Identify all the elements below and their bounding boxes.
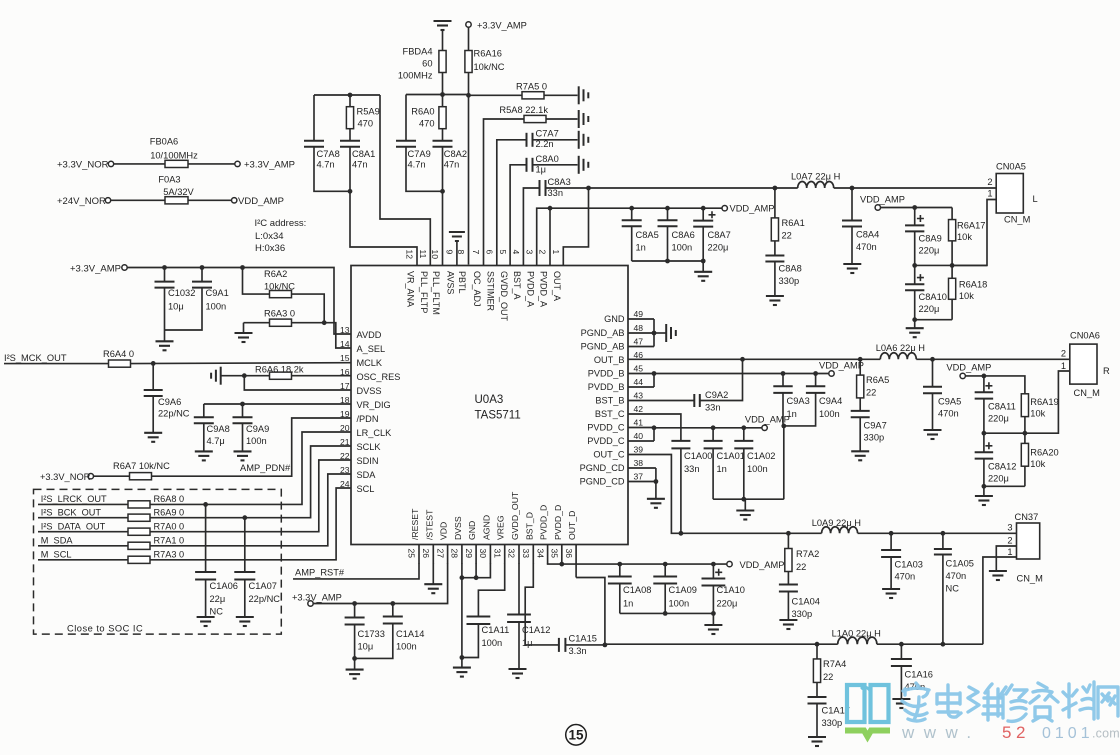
watermark logo [845, 682, 1118, 737]
wire mid node L [912, 263, 987, 268]
svg-text:26: 26 [421, 549, 431, 559]
wire cap commons [632, 259, 706, 272]
resistor R6A18 [949, 265, 988, 319]
svg-text:C1A03: C1A03 [895, 560, 923, 570]
svg-text:10k: 10k [959, 291, 974, 301]
wire to pin12 VR_ANA [350, 191, 417, 265]
svg-text:42: 42 [634, 404, 644, 414]
svg-text:A_SEL: A_SEL [357, 344, 386, 354]
svg-text:PVDD_B: PVDD_B [588, 382, 625, 392]
capacitor C1A00 [628, 414, 712, 536]
capacitor C1A07 [234, 518, 280, 617]
svg-text:I²S_LRCK_OUT: I²S_LRCK_OUT [41, 494, 107, 504]
ground [989, 571, 1007, 580]
svg-text:R6A17: R6A17 [957, 221, 985, 231]
svg-text:PLL_FLTP: PLL_FLTP [419, 271, 429, 313]
svg-text:470n: 470n [895, 572, 916, 582]
svg-text:C8A0: C8A0 [536, 154, 559, 164]
svg-text:100n: 100n [747, 464, 768, 474]
svg-text:C8A4: C8A4 [856, 230, 879, 240]
svg-text:10μ: 10μ [358, 642, 374, 652]
node +24V_NOR [57, 196, 111, 207]
svg-text:C9A5: C9A5 [938, 397, 961, 407]
svg-text:28: 28 [450, 549, 460, 559]
svg-text:220μ: 220μ [708, 243, 729, 253]
U0A3 top pin numbers 12-1 [405, 250, 561, 260]
resistor R6A1 [771, 188, 804, 241]
svg-text:220μ: 220μ [919, 304, 940, 314]
svg-text:C9A2: C9A2 [705, 390, 728, 400]
svg-text:100n: 100n [396, 642, 417, 652]
svg-text:I²S_MCK_OUT: I²S_MCK_OUT [4, 353, 67, 363]
svg-text:R6A20: R6A20 [1030, 448, 1058, 458]
capacitor C8A8 [765, 241, 801, 296]
resistor R6A20 [1021, 433, 1058, 486]
capacitor C1A17 [808, 683, 850, 737]
svg-text:C8A9: C8A9 [919, 233, 942, 243]
svg-text:1μ: 1μ [536, 165, 547, 175]
capacitor C1A09 [653, 564, 697, 613]
svg-text:VDD_AMP: VDD_AMP [946, 363, 991, 373]
ground [666, 324, 676, 342]
svg-text:+3.3V_NOR: +3.3V_NOR [57, 159, 109, 170]
wire bottom node L [912, 317, 952, 327]
capacitor C1A10 [702, 564, 745, 613]
svg-text:PBTL: PBTL [457, 271, 467, 294]
wire VDD to C8A9 R6A17 [881, 205, 953, 220]
svg-text:PGND_CD: PGND_CD [580, 477, 625, 487]
svg-text:F0A3: F0A3 [158, 175, 180, 185]
capacitor C8A0 [510, 154, 577, 266]
svg-text:25: 25 [407, 549, 417, 559]
label I²S_LRCK_OUT [41, 494, 107, 504]
svg-text:29: 29 [464, 549, 474, 559]
svg-text:R6A7 10k/NC: R6A7 10k/NC [113, 461, 170, 471]
U0A3 bottom pin numbers 25-36 [407, 549, 574, 559]
capacitor C1A03 [881, 533, 923, 588]
svg-text:10k/NC: 10k/NC [264, 282, 295, 292]
label M_SDA [41, 536, 74, 546]
wire DVSS pin17 [244, 376, 351, 390]
capacitor C8A12 [975, 433, 1017, 486]
U0A3 top pin labels [406, 271, 562, 322]
svg-text:41: 41 [634, 418, 644, 428]
svg-text:R7A4: R7A4 [823, 659, 846, 669]
ground [851, 451, 869, 460]
svg-text:0101: 0101 [1042, 725, 1094, 742]
wire rail1 PLL_FLTP [314, 93, 380, 98]
wire PVDD_B rail [628, 371, 829, 387]
svg-text:.com: .com [1092, 727, 1120, 741]
ground [579, 86, 589, 104]
U0A3 bottom pin stubs [419, 545, 576, 564]
ground [906, 328, 924, 337]
label I2S_MCK_OUT [4, 353, 67, 363]
svg-text:MCLK: MCLK [357, 358, 383, 368]
svg-text:C1A12: C1A12 [522, 625, 550, 635]
svg-text:PVDD_D: PVDD_D [553, 505, 563, 540]
svg-text:PGND_CD: PGND_CD [580, 463, 625, 473]
svg-text:22p/NC: 22p/NC [158, 409, 190, 419]
svg-text:22p/NC: 22p/NC [249, 594, 281, 604]
resistor R6A19 [1021, 394, 1058, 433]
wire OUT_A from pin1 [563, 186, 591, 266]
capacitor C8A6 [658, 208, 695, 261]
svg-text:AMP_PDN#: AMP_PDN# [240, 463, 291, 473]
wire AMP_RST# to pin25 [293, 563, 419, 579]
node +3.3V_AMP [466, 21, 527, 31]
wire PVDD_D rail [548, 562, 727, 567]
svg-text:100MHz: 100MHz [398, 71, 433, 81]
wire GND PGND_AB pins 49-47 [628, 319, 666, 347]
svg-text:VDD_AMP: VDD_AMP [238, 196, 284, 207]
resistor R7A2 [785, 533, 819, 572]
svg-text:15: 15 [568, 728, 584, 743]
svg-text:10k: 10k [957, 232, 972, 242]
wire to pin10 PLL_FLTM [442, 191, 444, 265]
svg-text:4.7n: 4.7n [408, 160, 426, 170]
svg-text:3.3n: 3.3n [569, 646, 587, 656]
svg-text:1: 1 [551, 250, 561, 255]
wire C9A3 C9A4 to gnd line [783, 426, 785, 499]
svg-text:GND: GND [604, 314, 625, 324]
svg-text:BST_B: BST_B [595, 396, 624, 406]
svg-text:C8A12: C8A12 [988, 462, 1016, 472]
svg-text:1: 1 [1061, 361, 1066, 371]
capacitor C9A2 [628, 359, 743, 412]
inductor L0A6 [876, 343, 925, 359]
svg-text:1: 1 [1007, 547, 1012, 557]
svg-text:PVDD_C: PVDD_C [587, 436, 625, 446]
svg-text:C9A1: C9A1 [206, 288, 229, 298]
resistor R6A7 [94, 418, 352, 480]
svg-text:L0A6 22μ H: L0A6 22μ H [876, 343, 925, 353]
svg-text:SCLK: SCLK [357, 442, 382, 452]
svg-text:OUT_B: OUT_B [594, 355, 625, 365]
ground [843, 264, 861, 273]
svg-text:R: R [1103, 366, 1110, 376]
svg-text:R6A6 18.2k: R6A6 18.2k [255, 364, 304, 374]
svg-text:Close to SOC IC: Close to SOC IC [67, 624, 143, 634]
capacitor C8A1 [340, 129, 375, 194]
svg-text:VREG: VREG [496, 515, 506, 540]
resistor R5A9 [346, 95, 379, 129]
svg-text:C8A8: C8A8 [779, 264, 802, 274]
svg-text:NC: NC [946, 584, 960, 594]
svg-text:10μ: 10μ [168, 302, 184, 312]
svg-text:C1A05: C1A05 [946, 559, 974, 569]
ground [211, 367, 221, 385]
label AMP_PDN# [240, 463, 291, 473]
svg-text:CN0A6: CN0A6 [1070, 331, 1100, 341]
svg-text:R5A8 22.1k: R5A8 22.1k [499, 105, 548, 115]
svg-text:+3.3V_AMP: +3.3V_AMP [292, 593, 342, 603]
svg-text:R6A18: R6A18 [959, 280, 987, 290]
resistor R7A1 [38, 474, 351, 549]
U0A3 left pin labels [357, 330, 401, 494]
node VDD_AMP [819, 360, 864, 376]
U0A3 right pin labels [580, 314, 625, 487]
svg-text:2: 2 [987, 177, 992, 187]
svg-text:AGND: AGND [481, 515, 491, 540]
svg-text:DVSS: DVSS [453, 516, 463, 540]
ground STEST pin26 [424, 563, 442, 593]
connector CN0A6 [1061, 331, 1110, 398]
svg-text:40: 40 [634, 431, 644, 441]
svg-text:5A/32V: 5A/32V [163, 187, 194, 197]
svg-text:C1032: C1032 [168, 288, 195, 298]
capacitor C1A15 [525, 563, 607, 656]
svg-text:4: 4 [511, 250, 521, 255]
svg-text:+3.3V_NOR: +3.3V_NOR [40, 472, 91, 482]
svg-text:22: 22 [796, 562, 806, 572]
svg-text:4.7n: 4.7n [317, 160, 335, 170]
resistor R6A17 [949, 220, 986, 266]
ground [882, 589, 900, 598]
svg-text:R5A9: R5A9 [357, 107, 380, 117]
svg-text:/PDN: /PDN [357, 414, 379, 424]
svg-text:C9A7: C9A7 [864, 421, 887, 431]
ground [156, 341, 174, 350]
svg-text:R6A9 0: R6A9 0 [154, 507, 185, 517]
capacitor C9A9 [233, 404, 270, 451]
svg-text:6: 6 [485, 250, 495, 255]
node VDD_AMP [860, 195, 905, 211]
svg-text:37: 37 [634, 472, 644, 482]
wire OUT_C net [628, 455, 822, 536]
svg-text:+24V_NOR: +24V_NOR [57, 196, 106, 207]
svg-text:220μ: 220μ [988, 414, 1009, 424]
capacitor C8A10 [905, 265, 947, 319]
svg-text:47n: 47n [352, 160, 368, 170]
svg-text:/RESET: /RESET [410, 508, 420, 540]
svg-text:PVDD_A: PVDD_A [539, 271, 549, 307]
connector CN37 [1007, 512, 1043, 584]
wire R6A16 to pin8 PBTL [466, 73, 471, 265]
svg-text:R6A19: R6A19 [1030, 397, 1058, 407]
capacitor C7A9 [396, 95, 443, 192]
svg-text:330p: 330p [822, 718, 843, 728]
resistor R7A3 [38, 488, 351, 563]
svg-text:7: 7 [471, 250, 481, 255]
svg-text:www.: www. [901, 723, 981, 742]
resistor R6A0 [411, 95, 446, 129]
wire OUT_A net [589, 186, 798, 191]
svg-text:I²S_DATA_OUT: I²S_DATA_OUT [41, 521, 106, 531]
U0A3 left pin numbers 13-24 [340, 325, 350, 489]
watermark url www.520101.com [901, 723, 1120, 742]
svg-text:33n: 33n [684, 464, 700, 474]
svg-text:C9A9: C9A9 [246, 424, 269, 434]
svg-text:C8A7: C8A7 [708, 230, 731, 240]
svg-text:SCL: SCL [357, 484, 375, 494]
capacitor C1A02 [734, 428, 775, 499]
svg-text:22: 22 [866, 388, 876, 398]
resistor R7A5 [469, 82, 578, 99]
capacitor C8A3 [523, 177, 588, 266]
wire OUT_D right [877, 642, 983, 647]
wire OUT_C to CN37 [858, 531, 1017, 536]
svg-text:33: 33 [521, 549, 531, 559]
svg-text:C7A9: C7A9 [408, 149, 431, 159]
svg-text:BST_C: BST_C [595, 409, 625, 419]
svg-text:35: 35 [550, 549, 560, 559]
wire PGND_CD pins 38-37 [628, 468, 658, 499]
svg-text:C7A8: C7A8 [317, 149, 340, 159]
ground [197, 617, 215, 626]
svg-text:330p: 330p [779, 276, 800, 286]
capacitor C9A5 [923, 359, 961, 429]
capacitor C8A7 [693, 208, 731, 261]
inductor L0A9 [812, 518, 861, 533]
svg-text:C1A04: C1A04 [792, 597, 820, 607]
page number 15 [566, 725, 587, 746]
svg-text:R6A16: R6A16 [474, 49, 502, 59]
svg-text:1n: 1n [636, 243, 646, 253]
svg-text:C7A7: C7A7 [536, 129, 559, 139]
wire DVSS GND AGND pins [460, 563, 491, 660]
capacitor C1A14 [355, 604, 425, 659]
svg-text:C8A2: C8A2 [444, 149, 467, 159]
svg-text:C8A10: C8A10 [919, 292, 947, 302]
svg-text:CN0A5: CN0A5 [996, 162, 1026, 172]
svg-text:330p: 330p [792, 609, 813, 619]
svg-text:27: 27 [435, 549, 445, 559]
resistor R6A6 [221, 364, 351, 379]
wire OUT_B net [628, 357, 880, 362]
svg-text:OUT_A: OUT_A [552, 271, 562, 301]
svg-text:2.2n: 2.2n [536, 139, 554, 149]
svg-text:L:0x34: L:0x34 [255, 231, 284, 242]
svg-text:C1733: C1733 [358, 629, 385, 639]
capacitor C1A06 [195, 504, 238, 616]
svg-text:470n: 470n [856, 242, 877, 252]
svg-text:C1A07: C1A07 [249, 581, 277, 591]
svg-text:C9A6: C9A6 [158, 397, 181, 407]
node VDD_AMP [946, 363, 991, 379]
ground [694, 272, 712, 281]
wire VDD to C8A11 R6A19 [965, 374, 1025, 394]
svg-text:C8A1: C8A1 [352, 149, 375, 159]
capacitor C7A7 [497, 129, 578, 266]
svg-text:C1A01: C1A01 [717, 451, 745, 461]
ground [234, 451, 252, 460]
node +3.3V_NOR [40, 472, 94, 482]
svg-text:+3.3V_AMP: +3.3V_AMP [244, 159, 295, 170]
capacitor C8A9 [905, 208, 942, 266]
svg-text:100n: 100n [482, 638, 503, 648]
svg-text:C1A09: C1A09 [669, 585, 697, 595]
svg-text:10: 10 [430, 250, 440, 260]
node VDD_AMP [745, 415, 790, 431]
svg-text:PVDD_C: PVDD_C [587, 423, 625, 433]
capacitor C9A1 [165, 268, 229, 331]
svg-text:100n: 100n [206, 302, 227, 312]
svg-text:L: L [1033, 194, 1038, 204]
wire rail2 [406, 92, 469, 97]
wire CN37 pin2 to ground [996, 546, 1016, 571]
ground [647, 499, 665, 508]
svg-text:52: 52 [1002, 723, 1030, 742]
node +3.3V_AMP [292, 593, 342, 607]
svg-text:1μ: 1μ [522, 638, 533, 648]
svg-text:VDD_AMP: VDD_AMP [745, 415, 790, 425]
ground [579, 156, 589, 174]
junction [242, 515, 247, 520]
svg-text:FBDA4: FBDA4 [403, 47, 433, 57]
svg-text:C8A3: C8A3 [548, 177, 571, 187]
capacitor C9A8 [194, 404, 230, 451]
capacitor C1A11 [462, 563, 509, 658]
svg-text:M_SCL: M_SCL [41, 550, 72, 560]
ground [766, 296, 784, 305]
wire caps common C [713, 497, 784, 510]
svg-text:3: 3 [1007, 523, 1012, 533]
svg-text:43: 43 [634, 391, 644, 401]
capacitor C8A5 [622, 208, 659, 261]
ground [736, 511, 754, 520]
ground [892, 699, 910, 708]
svg-text:44: 44 [634, 377, 644, 387]
svg-text:/STEST: /STEST [424, 509, 434, 540]
svg-text:470n: 470n [938, 409, 959, 419]
ground [808, 737, 826, 746]
svg-text:45: 45 [634, 364, 644, 374]
wire mid node R [982, 371, 1070, 436]
svg-text:TAS5711: TAS5711 [475, 410, 521, 422]
svg-text:4.7μ: 4.7μ [207, 436, 225, 446]
svg-text:CN37: CN37 [1015, 512, 1039, 522]
IC U0A3 TAS5711 [351, 266, 628, 545]
svg-text:OUT_C: OUT_C [593, 450, 625, 460]
svg-text:AVDD: AVDD [357, 330, 382, 340]
svg-text:5: 5 [498, 250, 508, 255]
svg-text:15: 15 [340, 353, 350, 363]
ground [509, 669, 527, 678]
svg-text:LR_CLK: LR_CLK [357, 428, 393, 438]
svg-text:R6A2: R6A2 [264, 269, 287, 279]
ground [195, 451, 213, 460]
junction [203, 502, 208, 507]
svg-text:31: 31 [492, 549, 502, 559]
capacitor C8A2 [433, 129, 468, 194]
svg-text:100n: 100n [669, 599, 690, 609]
label I²S_BCK_OUT [41, 507, 102, 517]
svg-text:C1A08: C1A08 [623, 585, 651, 595]
svg-text:GVDD_OUT: GVDD_OUT [510, 491, 520, 540]
svg-text:GVDD_OUT: GVDD_OUT [499, 271, 509, 322]
svg-text:R7A1 0: R7A1 0 [154, 536, 185, 546]
wire rail1 to pin11 PLL_FLTP [380, 95, 430, 266]
svg-text:10/100MHz: 10/100MHz [150, 151, 198, 161]
resistor R6A2 [243, 268, 325, 323]
svg-text:R6A5: R6A5 [866, 375, 889, 385]
svg-text:I²S_BCK_OUT: I²S_BCK_OUT [41, 507, 102, 517]
svg-text:R7A2: R7A2 [796, 549, 819, 559]
svg-text:L1A0 22μ H: L1A0 22μ H [832, 629, 881, 639]
wire bottom node R [982, 484, 1025, 496]
svg-text:22: 22 [823, 672, 833, 682]
svg-text:SDIN: SDIN [357, 456, 379, 466]
label I²S_DATA_OUT [41, 521, 106, 531]
wire CN37 pin1 to OUT_D [983, 557, 1017, 644]
svg-text:I²C address:: I²C address: [255, 218, 307, 229]
wire caps common D [620, 611, 716, 625]
ground [235, 323, 253, 342]
svg-text:11: 11 [418, 250, 428, 259]
svg-text:1n: 1n [717, 464, 727, 474]
wire OUT_D from pin36 [576, 563, 605, 645]
